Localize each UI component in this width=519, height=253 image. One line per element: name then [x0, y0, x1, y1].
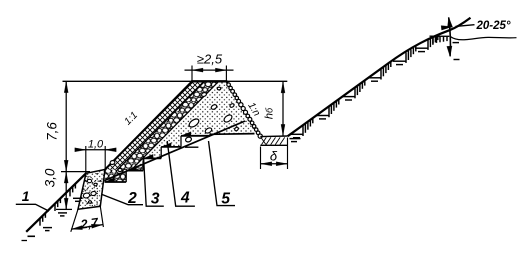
svg-text:4: 4 — [180, 190, 190, 207]
svg-text:1: 1 — [22, 188, 30, 204]
svg-text:hб: hб — [264, 107, 276, 119]
svg-text:1:1: 1:1 — [122, 110, 140, 128]
svg-text:1,0: 1,0 — [88, 139, 104, 151]
svg-text:7,6: 7,6 — [45, 122, 60, 141]
svg-text:≥2,5: ≥2,5 — [197, 51, 223, 66]
svg-text:2,7: 2,7 — [79, 215, 100, 232]
svg-text:δ: δ — [270, 148, 278, 163]
svg-text:3: 3 — [151, 190, 160, 207]
svg-text:20-25°: 20-25° — [475, 20, 510, 32]
svg-text:2: 2 — [127, 190, 137, 207]
svg-text:5: 5 — [221, 190, 230, 207]
svg-text:3,0: 3,0 — [43, 168, 58, 187]
